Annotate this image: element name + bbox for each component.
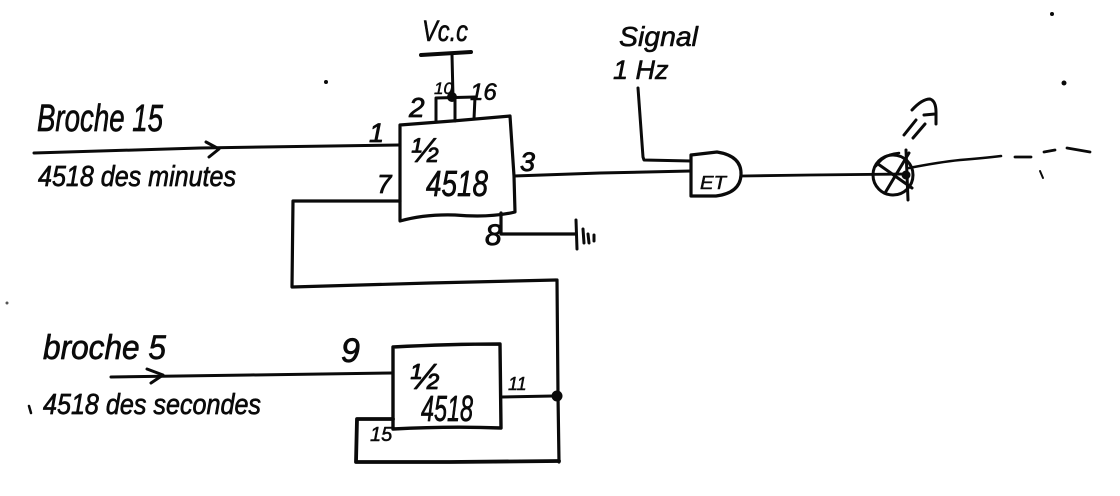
stray dot left margin [6,302,9,305]
ground symbol [576,220,594,249]
label broche 5 [43,329,166,367]
wire W1: pin 1 input from left [34,145,399,153]
svg-text:15: 15 [370,424,393,446]
wire W5: signal 1Hz down to AND gate [638,88,691,161]
svg-text:Signal: Signal [619,21,699,52]
pin label 11 [508,374,527,394]
svg-text:Broche 15: Broche 15 [37,98,164,140]
wire W7: lamp output wavy [909,156,1001,168]
svg-text:4518: 4518 [421,388,473,429]
svg-text:2: 2 [408,92,425,123]
svg-text:1 Hz: 1 Hz [613,55,669,85]
arrow doodle above lamp [904,99,936,138]
wire W11: pin 11 to node A [502,396,553,397]
wire W4: pin 8 to ground [501,213,576,234]
pin label 15 [370,424,393,446]
wire W3: pin 3 to AND gate input [514,171,691,176]
Vcc label [422,15,468,48]
pin label 10 [434,79,453,98]
IC U1 box (1/2 4518 minutes counter) [400,116,515,221]
label Broche 15 [37,98,164,140]
svg-text:1: 1 [369,118,384,148]
junction node A dot [552,391,563,402]
pin label 9 [341,332,360,370]
pin label 7 [377,169,393,199]
junction dot at pins 10/16 [447,92,457,102]
label 1/2 inside U1 [411,132,439,170]
stray comma before 4518 [29,406,31,413]
lamp L1 (circle with cross) [873,150,913,200]
svg-text:4518 des minutes: 4518 des minutes [38,161,236,193]
dashed continuation of output wire [1015,148,1090,157]
AND gate U3 (ET) [691,152,741,196]
stray dot above chip [324,80,328,84]
Vcc rail bar [421,52,471,55]
label 4518 des secondes [43,389,261,421]
svg-text:7: 7 [377,169,393,199]
pin label 3 [520,147,535,177]
svg-text:ET: ET [700,173,728,193]
pin label 8 [485,219,502,252]
stray tick mark [1040,171,1043,178]
top connector pins 10 and 16 on U1 [436,97,475,122]
wire W6: AND gate output to lamp [742,174,908,176]
label 4518 inside U1 [426,163,488,204]
wire W9: vertical node wire down [557,280,559,462]
stray dot top right [1050,12,1067,86]
label 1/2 inside U2 [410,356,440,397]
label 1 Hz [613,55,669,85]
label Signal [619,21,699,52]
wire W10: pin 9 input from left [111,373,392,377]
IC U2 box (1/2 4518 seconds counter) [393,344,501,429]
svg-text:11: 11 [508,374,527,394]
wire W2: Vcc to pins 10/16 [452,55,453,97]
pin label 1 [369,118,384,148]
arrowhead on wire W1 [206,142,219,157]
wire W12: bottom loop from node A to pin 15 [356,419,559,462]
wire W8: feedback pin 7 to node A [292,201,556,287]
svg-text:3: 3 [520,147,535,177]
svg-text:4518 des secondes: 4518 des secondes [43,389,261,421]
svg-text:4518: 4518 [426,163,488,204]
arrowhead on wire W10 [147,369,163,383]
pin label 16 [470,79,497,106]
label ET inside gate [700,173,728,193]
svg-text:broche 5: broche 5 [43,329,166,367]
svg-text:10: 10 [434,79,453,98]
svg-text:16: 16 [470,79,497,106]
svg-text:Vc.c: Vc.c [422,15,468,48]
svg-text:9: 9 [341,332,360,370]
pin label 2 [408,92,425,123]
label 4518 inside U2 [421,388,473,429]
label 4518 des minutes [38,161,236,193]
